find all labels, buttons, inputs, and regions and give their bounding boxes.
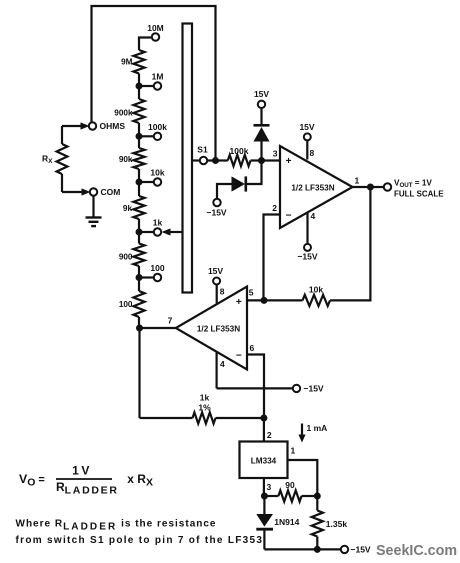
node S1 junction [212,157,219,164]
svg-text:90: 90 [285,480,295,490]
label 9M [121,58,133,67]
switch S1 wiper bar [183,24,193,293]
svg-text:1V: 1V [72,463,92,477]
label U1A plus [286,156,292,167]
label 10M [147,23,164,33]
svg-text:3: 3 [267,482,272,492]
node S1 pole terminal [200,157,207,164]
svg-text:1 mA: 1 mA [307,423,328,433]
resistor 9k [133,196,144,219]
wire 900 to 100 tap [138,266,140,291]
current source LM334 [240,442,288,479]
wire 1k tap [139,231,154,233]
label U1A pin4 number [311,211,316,221]
svg-text:8: 8 [310,148,315,158]
resistor 100k input [228,155,251,166]
svg-text:1k: 1k [153,218,163,228]
wire LM334 pin3 [263,478,265,496]
wire 900k to 100k tap [138,123,140,148]
label 1k [153,218,163,228]
svg-text:−: − [286,210,292,221]
label caption line2 [16,535,268,546]
label formula fraction [56,463,119,496]
wire U1B pin8 [216,285,218,304]
label RX [42,154,53,166]
label 90k [119,155,133,164]
node COM terminal [90,188,97,195]
svg-text:−: − [236,351,242,362]
label U1B pin5 number [249,287,254,297]
label 100k [148,122,167,132]
label 15V (D1) [254,89,269,99]
ground [86,218,102,227]
resistor 1.35k [312,511,323,537]
svg-text:7: 7 [168,316,173,326]
label U1A pin8 number [310,148,315,158]
node -15V terminal (bottom) [341,546,348,553]
label U1A pin1 number [355,176,360,186]
wire S1 to 100k [207,159,228,161]
svg-text:1: 1 [291,446,296,456]
wire 1N914 top lead [263,496,265,515]
wire S1 wiper arrow to 1k tap [169,231,183,233]
svg-text:−15V: −15V [351,545,371,555]
svg-text:900k: 900k [114,108,133,117]
node +15V terminal (D1) [258,101,265,108]
label 900k [114,108,133,117]
label 15V (U1A) [299,122,314,132]
svg-text:1/2 LF353N: 1/2 LF353N [291,184,334,193]
wire 100 to bottom junction [138,317,140,328]
svg-text:3: 3 [273,149,278,159]
svg-text:10k: 10k [309,285,323,295]
diode D2 (from -15V) [232,176,246,191]
node 15V terminal (U1B pin8) [213,278,220,285]
label -15V (D2) [207,208,227,218]
svg-text:100: 100 [150,263,164,273]
wire U1B output [140,327,176,329]
svg-text:8: 8 [220,287,225,297]
label VOUT [394,179,444,199]
wire arrowhead at 1k tap [162,228,171,235]
wire output to 10k [330,187,370,300]
svg-text:+: + [236,297,242,308]
label 100 tap [150,263,164,273]
wire COM to ground [92,196,94,217]
svg-text:5: 5 [249,287,254,297]
wire Rx top lead [62,125,81,127]
svg-text:SeekIC.com: SeekIC.com [376,543,457,559]
svg-text:4: 4 [220,359,225,369]
wire Rx bottom arrowhead [82,188,91,195]
wire U1A pin8 [306,140,308,159]
node VOUT terminal [384,183,391,190]
op-amp U1B [176,287,247,370]
label 1k [198,393,211,413]
label 1.35k [326,519,348,529]
resistor 10k feedback [303,295,331,306]
node -15V terminal (U1B pin4) [293,385,300,392]
label LM334 pin2 number [267,430,272,440]
label U1B pin8 number [220,287,225,297]
svg-text:4: 4 [311,211,316,221]
node 100k terminal [154,133,161,140]
svg-text:1: 1 [355,176,360,186]
node OHMS terminal [89,122,96,129]
wire Rx bottom lead [62,191,82,193]
wire Rx top arrowhead [81,122,90,129]
label 1M [152,72,164,82]
label -15V (U1A) [297,252,317,262]
node 1k tap junction [136,229,143,236]
wire 1.35k leads [316,496,318,549]
node pin3 junction [261,493,268,500]
wire U1A pin4 [306,212,308,244]
svg-text:S1: S1 [197,145,208,155]
label U1B minus [236,351,242,362]
svg-text:from switch S1 pole to pin 7 o: from switch S1 pole to pin 7 of the LF35… [16,535,268,546]
label 10k [150,168,164,178]
label 90 [285,480,295,490]
svg-text:OHMS: OHMS [100,121,126,131]
wire U1B pin6 [247,355,264,419]
svg-text:−15V: −15V [207,208,227,218]
node diode clamp junction [258,157,265,164]
node 100k tap junction [136,133,143,140]
node -15V terminal (D2) [213,199,220,206]
node 1M tap junction [136,83,143,90]
svg-text:−15V: −15V [297,252,317,262]
wire 1k right lead [216,417,264,419]
svg-text:COM: COM [101,187,121,197]
diode D1 (to +15V) [254,108,270,142]
svg-text:90k: 90k [119,155,133,164]
node -15V terminal (U1A pin4) [304,244,311,251]
svg-text:100: 100 [119,300,133,309]
wire 100 tap [139,276,154,278]
svg-text:100k: 100k [148,122,167,132]
label LM334 [251,457,277,466]
label U1A pin2 [272,203,277,213]
label 15V (U1B) [208,266,223,276]
svg-text:6: 6 [250,343,255,353]
resistor 900 [133,244,144,267]
wire D1 lead [260,142,262,161]
wire bottom -15V [264,548,340,550]
wire U1B pin4 [216,352,218,389]
label 10k feedback [309,285,323,295]
label LM334 pin1 number [291,446,296,456]
label -15V (U1B pin4) [304,384,324,394]
diode 1N914 [256,514,273,529]
resistor RX [57,144,68,174]
resistor 90k [133,148,144,169]
wire U1A pin2 to U1B pin5 [264,215,281,301]
svg-text:2: 2 [272,203,277,213]
wire ladder top to 10M tap [139,38,152,51]
resistor 90 [278,490,301,501]
node ladder bottom junction [136,325,143,332]
node 10M terminal [152,33,159,40]
resistor 900k [133,99,144,123]
node pin5 junction [261,297,268,304]
op-amp U1A [280,146,353,228]
wire LM334 pin2 [263,418,265,442]
svg-text:1M: 1M [152,72,164,82]
label U1B pin6 number [250,343,255,353]
svg-text:15V: 15V [299,122,314,132]
node 1M terminal [154,82,161,89]
label 100k input [230,146,249,156]
wire U1A output [353,186,384,188]
node output junction [367,184,374,191]
resistor 100 [133,291,144,317]
svg-text:10M: 10M [147,23,164,33]
label formula xRx [127,472,153,489]
label S1 [197,145,208,155]
svg-text:10k: 10k [150,168,164,178]
label U1B pin4 number [220,359,225,369]
svg-text:FULL SCALE: FULL SCALE [394,189,444,198]
label 900 [119,253,133,262]
label U1B pin7 number [168,316,173,326]
label caption line1 [16,519,217,533]
wire 90 left lead [264,495,278,497]
label -15V (bottom) [351,545,371,555]
label U1B name [197,325,240,334]
label U1A pin3 [273,149,278,159]
node 100 terminal [154,274,161,281]
svg-text:9M: 9M [121,58,133,67]
node 1k terminal [154,228,161,235]
wire LM334 pin1 [288,460,318,496]
label LM334 pin3 number [267,482,272,492]
node 90/1.35k junction [314,493,321,500]
svg-text:+: + [286,156,292,167]
wire 90 right lead [302,495,318,497]
label U1A minus [286,210,292,221]
label U1B plus [236,297,242,308]
node 100 tap junction [136,274,143,281]
wire 1N914 bottom lead [263,529,265,549]
node 1k junction [260,415,267,422]
label 1 mA arrow [298,423,327,443]
wire D2 lead left [217,184,232,199]
wire 1k left lead [140,417,193,419]
wire 100k tap [139,135,154,137]
wire top loop (OHMS node to S1 pole) [92,6,216,161]
svg-text:LM334: LM334 [251,457,277,466]
wire 90k to 10k tap [138,169,140,196]
label 100 [119,300,133,309]
wire D2 lead right [246,161,262,185]
node 10k tap junction [136,179,143,186]
svg-text:9k: 9k [123,204,133,213]
svg-text:1k: 1k [200,393,210,403]
label 9k [123,204,133,213]
wire S1 pole [192,159,200,161]
wire 10k tap [139,181,154,183]
svg-text:1N914: 1N914 [274,517,299,527]
svg-text:1%: 1% [198,403,211,413]
svg-text:100k: 100k [230,146,249,156]
node 10k terminal [154,178,161,185]
label SeekIC watermark [376,543,457,559]
wire -15V supply U1B [217,387,293,389]
wire Rx body leads [61,126,63,192]
wire 1M tap [139,85,154,87]
svg-text:15V: 15V [254,89,269,99]
svg-text:2: 2 [267,430,272,440]
svg-text:1/2 LF353N: 1/2 LF353N [197,325,240,334]
wire 100k to node [251,159,281,161]
node 15V terminal (U1A pin8) [304,133,311,140]
node bottom junction [314,546,321,553]
label OHMS [100,121,126,131]
resistor 1k 1% [193,412,216,423]
svg-text:15V: 15V [208,266,223,276]
svg-text:1.35k: 1.35k [326,519,348,529]
wire ladder bottom down [138,328,140,418]
wire 10k to pin5 node [247,299,303,301]
wire 9k to 1k tap [138,219,140,244]
label 1N914 [274,517,299,527]
label formula VO [19,472,45,489]
svg-text:−15V: −15V [304,384,324,394]
label U1A name [291,184,334,193]
svg-text:900: 900 [119,253,133,262]
wire 9M to 1M tap [138,74,140,100]
resistor 9M [133,50,144,74]
label COM [101,187,121,197]
